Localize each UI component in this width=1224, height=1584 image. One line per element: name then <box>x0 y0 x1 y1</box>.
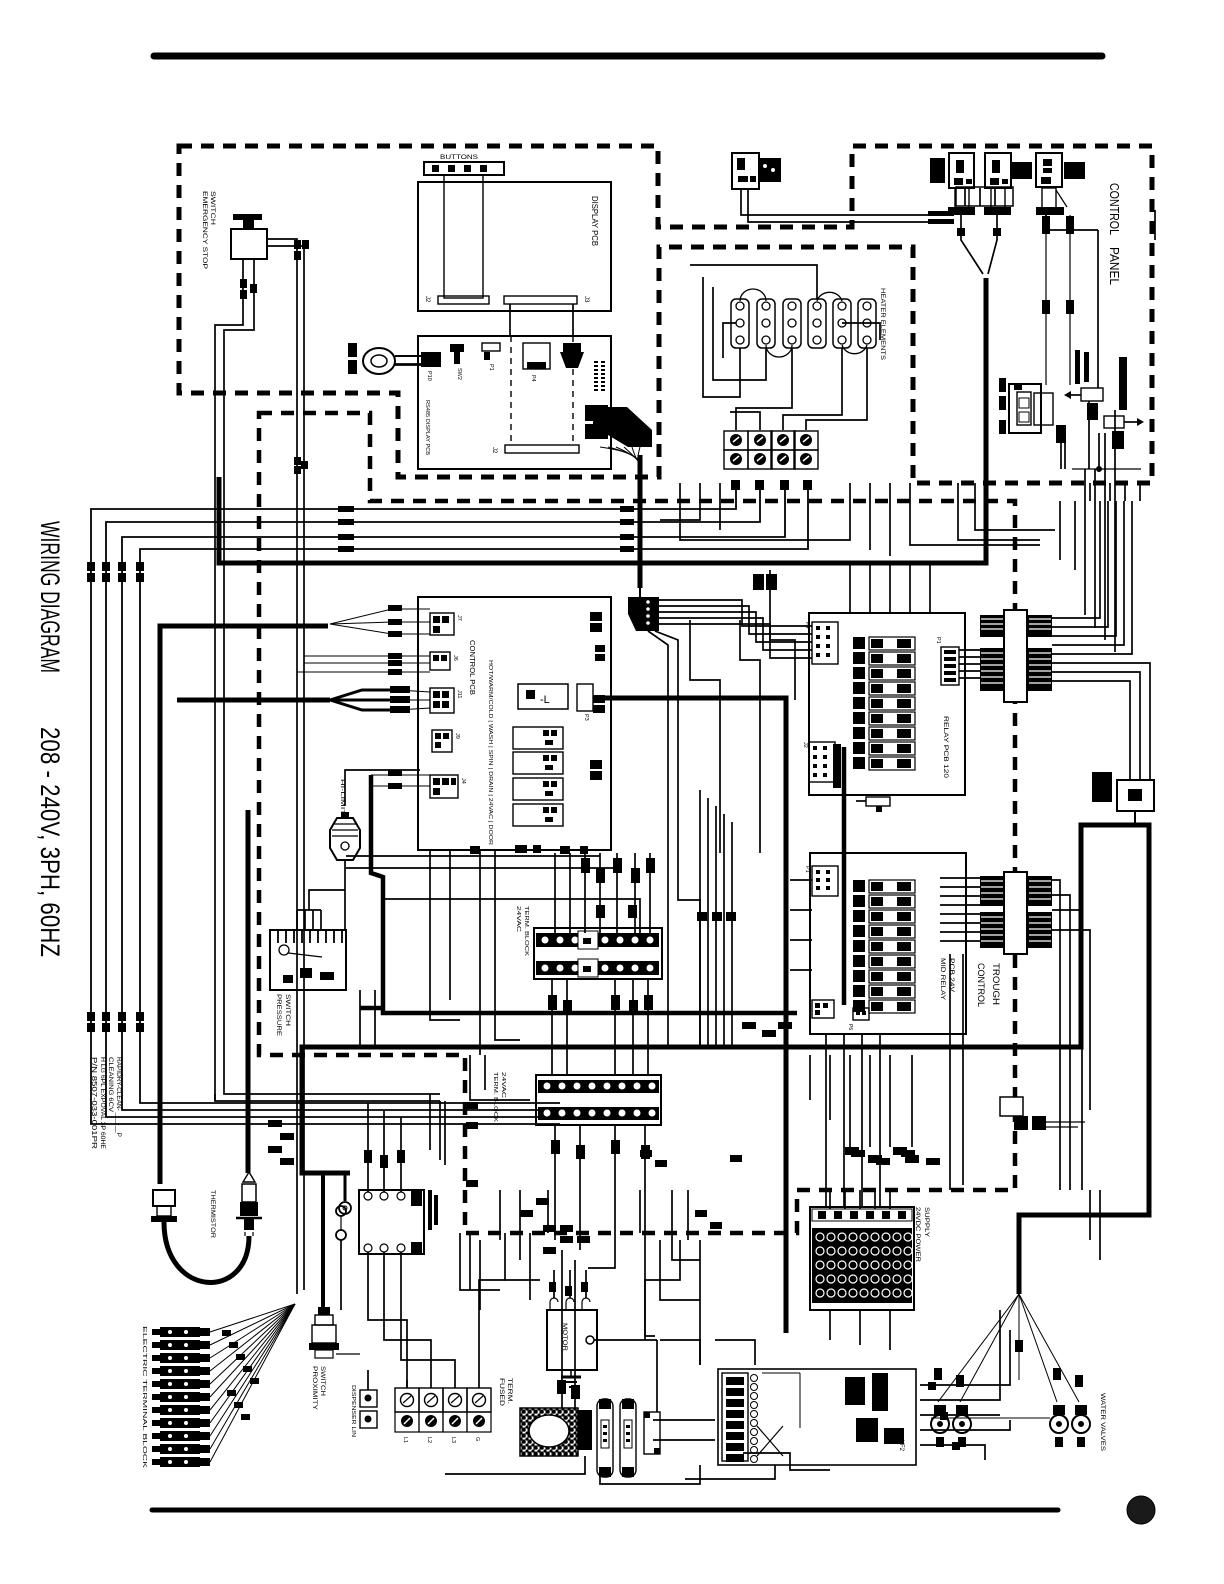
J1 lower fan wires <box>640 588 678 860</box>
wires pressure area to TB1 <box>346 856 640 933</box>
thermistor TH2 <box>236 1172 262 1230</box>
thick wire: thermistor feed <box>160 626 328 1184</box>
trough wall connector C3 <box>1000 1097 1085 1130</box>
svg-text:P6: P6 <box>847 1024 853 1030</box>
transformer top wires <box>364 1103 405 1192</box>
mid relay left wires <box>790 880 812 970</box>
thick wire: left fan stub <box>177 698 330 703</box>
water valve fan wires <box>934 1294 1083 1402</box>
svg-text:J4: J4 <box>460 778 466 784</box>
power supply bottom wires <box>830 1310 890 1350</box>
svg-text:208 - 240V, 3PH, 60HZ: 208 - 240V, 3PH, 60HZ <box>35 727 65 957</box>
e-stop bottom wires <box>215 259 440 1101</box>
connector J6 <box>430 652 458 670</box>
control trough label <box>976 963 1001 1007</box>
svg-text:G: G <box>474 1437 480 1441</box>
inline connector on e-stop bottom wires <box>240 279 257 299</box>
dispenser wire <box>367 1370 369 1390</box>
thick wire: relay pcb feeder <box>595 698 786 1333</box>
fuse F1 <box>518 684 568 709</box>
control trough enclosure (dashed) <box>259 413 1015 1233</box>
svg-text:P1: P1 <box>804 866 810 873</box>
inline connectors on left margin wires (upper) <box>87 562 144 582</box>
inline connector on e-stop right wires <box>294 240 309 260</box>
wires panel-to-trough band <box>958 483 1140 540</box>
filter output box <box>644 1412 660 1454</box>
C2 side wires <box>940 878 1090 1190</box>
heater terminal block TB-H <box>724 431 818 469</box>
connector P4 <box>523 343 550 382</box>
blower label <box>498 1378 512 1407</box>
svg-text:DISPENSER LIN: DISPENSER LIN <box>350 1385 356 1437</box>
connector J3 relay pcb <box>804 622 838 664</box>
ring terminals RT1 <box>336 1206 346 1310</box>
control PCB U-CTL <box>418 597 611 850</box>
thermistor probe wires <box>245 1232 253 1236</box>
svg-text:L3: L3 <box>450 1437 456 1443</box>
svg-text:ELECTRIC TERMINAL BLOCK: ELECTRIC TERMINAL BLOCK <box>141 1326 147 1469</box>
svg-text:CLEANING 6CV: CLEANING 6CV <box>107 1057 113 1112</box>
wires left of relay pcb <box>668 570 795 1047</box>
transformer part label <box>428 1190 438 1230</box>
terminal block fan wires <box>210 1304 295 1462</box>
button ribbon cable <box>444 175 483 298</box>
svg-text:VF2: VF2 <box>898 1440 904 1452</box>
svg-text:CONTROL: CONTROL <box>1107 183 1122 235</box>
wires trough center vertical runs <box>360 850 520 1055</box>
TB1 band notch <box>578 931 598 977</box>
VFD drive U-VFD <box>718 1369 916 1465</box>
relay K3 on control pcb <box>513 778 563 800</box>
pin header P6 <box>594 361 605 391</box>
door relay K-D1 <box>1064 388 1103 420</box>
heater elements bank HTR <box>731 299 876 348</box>
motor top wires <box>549 1270 590 1310</box>
J1 fan wires to relay pcb <box>659 600 812 658</box>
svg-text:J2: J2 <box>424 296 430 303</box>
control pcb bottom edge marks <box>470 845 588 854</box>
trough wall connector pair C1 <box>980 610 1052 702</box>
thick wire: display harness feeder down-left <box>219 278 986 563</box>
inline connector on J1 wire <box>753 574 777 590</box>
connector J7 <box>430 613 462 635</box>
connector P1 relay pcb <box>935 637 959 685</box>
wire band right of TB1 <box>697 790 792 1047</box>
svg-text:SWITCH: SWITCH <box>209 191 215 225</box>
hi-limit thermostat TH1 <box>330 779 360 860</box>
power supply top wires <box>830 1150 940 1209</box>
pressure switch PS1 <box>270 930 346 990</box>
connector J3 display <box>504 296 589 304</box>
svg-text:DISPLAY PCB: DISPLAY PCB <box>590 196 599 246</box>
water valve WV2 <box>975 1405 1090 1447</box>
relay K4 on control pcb <box>513 804 563 826</box>
svg-text:P1: P1 <box>935 637 941 644</box>
wires bottom right links <box>645 1240 1010 1440</box>
control panel label <box>1107 183 1122 285</box>
connector J9 <box>432 730 460 752</box>
pressure switch label <box>275 994 290 1036</box>
svg-text:WIRING DIAGRAM: WIRING DIAGRAM <box>35 521 65 673</box>
inline connector on e-stop bundle mid <box>294 457 308 474</box>
svg-text:P4: P4 <box>530 375 536 382</box>
buzzer label blobs <box>348 343 357 374</box>
relay PCB 120 U-R1 <box>809 613 965 795</box>
TB1 top wires <box>555 853 655 933</box>
svg-text:HOT/WARM/COLD | WASH | SPIN |: HOT/WARM/COLD | WASH | SPIN | DRAIN | 24… <box>487 660 493 846</box>
svg-text:P4: P4 <box>804 622 810 629</box>
mid pcb to psu wires <box>826 1034 880 1207</box>
svg-text:P1: P1 <box>488 364 494 371</box>
thick wire: left lower vertical <box>246 810 251 1173</box>
mid-left horizontals to control pcb <box>297 656 430 786</box>
svg-text:TERM. BLOCK: TERM. BLOCK <box>492 1072 498 1122</box>
connector P6 mid relay pcb <box>847 1008 869 1030</box>
svg-text:RS485 DISPLAY PCB: RS485 DISPLAY PCB <box>424 400 430 455</box>
wire bundle left margin (4 wires heater block to terminal area) <box>91 482 808 1124</box>
connector P10 <box>395 352 441 381</box>
proximity switch label <box>311 1366 325 1410</box>
connector J2 relay pcb <box>802 742 841 788</box>
wires right margin verticals <box>950 501 1100 1260</box>
svg-text:TERM.: TERM. <box>506 1378 512 1404</box>
svg-text:TROUGH: TROUGH <box>991 963 1001 1005</box>
connector J2 display <box>424 296 489 304</box>
part number block <box>90 1057 121 1149</box>
top border rule <box>154 53 1102 60</box>
svg-text:HI-LIMIT: HI-LIMIT <box>339 779 345 816</box>
relay pcb top wires <box>850 565 930 613</box>
door switch label bar <box>1119 357 1127 410</box>
svg-text:PANEL: PANEL <box>1107 247 1122 285</box>
power supply label <box>914 1207 930 1262</box>
connector J2 mid relay pcb <box>804 866 838 896</box>
svg-text:THERMISTOR: THERMISTOR <box>209 1190 215 1239</box>
svg-text:CONTROL PCB: CONTROL PCB <box>468 640 475 695</box>
mid relay PCB 24V U-R2 <box>810 853 966 1034</box>
emergency stop label <box>201 191 215 269</box>
svg-text:FUSED: FUSED <box>498 1378 504 1407</box>
svg-text:PCB 24V: PCB 24V <box>948 958 955 993</box>
TB1 label <box>515 906 529 956</box>
power block wires up <box>407 1280 505 1388</box>
svg-text:PRESSURE: PRESSURE <box>275 994 281 1036</box>
page number dot <box>1127 1496 1155 1524</box>
wire labels bottom center <box>520 1150 742 1229</box>
24VAC terminal block TB1 <box>534 928 662 979</box>
svg-text:H LG 6PL EXPOVAL 3P 60HE: H LG 6PL EXPOVAL 3P 60HE <box>99 1057 105 1149</box>
hi-limit wires <box>345 770 420 930</box>
wire label tabs column mid-left <box>388 605 410 789</box>
TB2 bottom wires <box>551 1125 655 1336</box>
svg-text:J3: J3 <box>583 296 589 303</box>
connector J11 <box>430 688 462 713</box>
svg-text:BUTTONS: BUTTONS <box>440 155 478 161</box>
selector switch S1 <box>948 153 1032 215</box>
svg-text:SWITCH: SWITCH <box>319 1366 325 1396</box>
thick wire: trough mid loop <box>360 775 797 1013</box>
mid relay pcb label <box>939 958 955 1001</box>
thermistor plug PL1 <box>151 1190 177 1222</box>
relay bank on mid relay pcb <box>853 880 915 1013</box>
wires control panel to relay boards <box>660 483 1040 556</box>
electric terminal block TB-E <box>152 1327 210 1467</box>
upper control board <box>418 336 611 469</box>
control panel enclosure (dashed) <box>179 146 1152 483</box>
wires VFD to valves <box>700 1330 1010 1470</box>
power block labels <box>402 1437 480 1443</box>
trough wall connector pair C2 <box>980 872 1052 954</box>
svg-text:J2: J2 <box>491 447 497 454</box>
24VDC power supply PSU <box>810 1207 914 1310</box>
ring terminal stub on bottom spine <box>339 1173 351 1214</box>
transformer T1 <box>359 1190 424 1255</box>
heater routing wires <box>690 265 880 430</box>
transformer bottom wires <box>368 1252 455 1388</box>
proximity switch PRX <box>309 1307 339 1358</box>
svg-text:SWITCH: SWITCH <box>284 994 290 1026</box>
svg-text:J11: J11 <box>456 690 462 698</box>
dispenser connector DP1 <box>350 1385 377 1437</box>
svg-text:SW2: SW2 <box>456 368 462 380</box>
thick wire: bottom spine <box>302 825 1149 1294</box>
svg-text:CONTROL: CONTROL <box>976 963 986 1007</box>
wire manifold box <box>956 187 1013 206</box>
svg-text:J6: J6 <box>452 655 458 661</box>
display PCB U-DSP <box>418 182 611 311</box>
svg-text:SUPPLY: SUPPLY <box>923 1207 930 1238</box>
proximity side wire <box>336 1353 360 1355</box>
svg-text:L2: L2 <box>426 1437 432 1443</box>
pressure switch top wires <box>297 890 345 930</box>
line filter FL1 <box>597 1399 613 1477</box>
wires from selector switches <box>957 215 1074 385</box>
svg-text:J2: J2 <box>802 742 808 748</box>
buttons connector strip <box>424 155 504 175</box>
thick wire: relay board link <box>842 747 847 1005</box>
svg-text:J9: J9 <box>454 733 460 739</box>
connector P1 <box>482 343 500 371</box>
fan from thick feeder to J7/J6 <box>330 609 430 634</box>
inline connectors on left margin wires (lower) <box>87 1012 144 1032</box>
relay K1 on control pcb <box>513 727 563 749</box>
ribbon bus to control board <box>510 304 573 336</box>
switch SW1 <box>560 343 584 368</box>
svg-text:J7: J7 <box>456 615 462 621</box>
door cluster wiring <box>1056 401 1141 652</box>
wires relay R5 to control panel <box>741 189 954 224</box>
VFD crossover wires <box>757 1373 800 1456</box>
svg-text:RELAY PCB 120: RELAY PCB 120 <box>942 716 949 778</box>
svg-text:L1: L1 <box>402 1437 408 1443</box>
switch SW2 <box>450 344 464 380</box>
connector P2 with harness <box>585 405 652 462</box>
motor M1 <box>547 1310 657 1412</box>
wires trough bottom exit <box>810 1055 919 1163</box>
thick fan branches <box>330 690 398 710</box>
svg-text:24VAC: 24VAC <box>515 906 521 932</box>
bottom border rule <box>152 1508 1058 1513</box>
thick wire: proximity switch drop <box>321 1173 325 1307</box>
svg-text:P10: P10 <box>426 371 432 381</box>
wires bottom left area <box>215 1094 520 1310</box>
TB1 bottom wires <box>548 979 653 1075</box>
relay bank on relay pcb 120 <box>853 637 915 770</box>
alarm buzzer AL1 <box>363 348 421 374</box>
relay R5 (panel corridor) <box>732 153 781 189</box>
selector switch S3 <box>1036 153 1085 215</box>
VFD bottom return wires <box>445 1456 775 1484</box>
door switch assembly DS1 <box>999 378 1053 434</box>
wire label cluster near transformer <box>466 1102 590 1254</box>
svg-text:MID RELAY: MID RELAY <box>939 958 946 1001</box>
control pcb right edge connectors <box>590 612 605 780</box>
wire labels on left margin runs <box>338 480 812 552</box>
wires from e-stop to down bundle <box>267 239 304 1294</box>
panel component U-P1 <box>1092 772 1154 825</box>
connector J5 relay pcb <box>856 797 890 812</box>
connector J3 mid relay pcb <box>812 1000 834 1018</box>
svg-text:RAPIDRY-CLEAN- ___-__P: RAPIDRY-CLEAN- ___-__P <box>115 1057 121 1137</box>
wires right panel verticals <box>1046 210 1155 388</box>
svg-text:-L: -L <box>540 694 550 706</box>
thick wire: display harness exit <box>638 455 643 588</box>
selector switch S2 <box>930 153 1011 215</box>
contactor input wires <box>557 1250 580 1408</box>
svg-text:EMERGENCY STOP: EMERGENCY STOP <box>201 191 207 269</box>
C1 right side wires <box>1052 501 1150 780</box>
line filter FL2 <box>620 1399 636 1477</box>
svg-text:24VDC POWER: 24VDC POWER <box>914 1207 921 1262</box>
connector J1 with harness <box>628 597 659 631</box>
P1 wires to wall connector <box>959 650 980 678</box>
connector P3 <box>577 684 593 721</box>
svg-text:P3: P3 <box>583 714 589 721</box>
door relay K-D2 <box>1104 416 1144 449</box>
relay K2 on control pcb <box>513 752 563 774</box>
power terminal block TB-L <box>395 1388 491 1432</box>
svg-text:PROXIMITY: PROXIMITY <box>311 1366 317 1410</box>
TB2 label <box>492 1072 506 1122</box>
ribbon inside upper board (dashed) <box>491 336 579 454</box>
wires bottom center links <box>445 1055 700 1340</box>
emergency stop switch SW-ES <box>231 214 267 259</box>
motor ground <box>561 1370 581 1387</box>
terminal block TB2 24VAC <box>536 1075 661 1125</box>
water valve WV1 <box>931 1405 975 1447</box>
svg-text:TERM. BLOCK: TERM. BLOCK <box>523 906 529 956</box>
svg-text:24VAC: 24VAC <box>500 1072 506 1098</box>
blower assembly B1 <box>520 1408 592 1456</box>
svg-text:WATER VALVES: WATER VALVES <box>1099 1393 1105 1451</box>
connector J4 <box>430 775 466 798</box>
thermistor cable loop <box>164 1222 249 1282</box>
wire labels bottom left <box>268 1120 294 1165</box>
heater jumper arcs <box>740 289 867 357</box>
fan continuation to J11 <box>398 690 430 710</box>
door cluster label blobs <box>1075 350 1089 384</box>
